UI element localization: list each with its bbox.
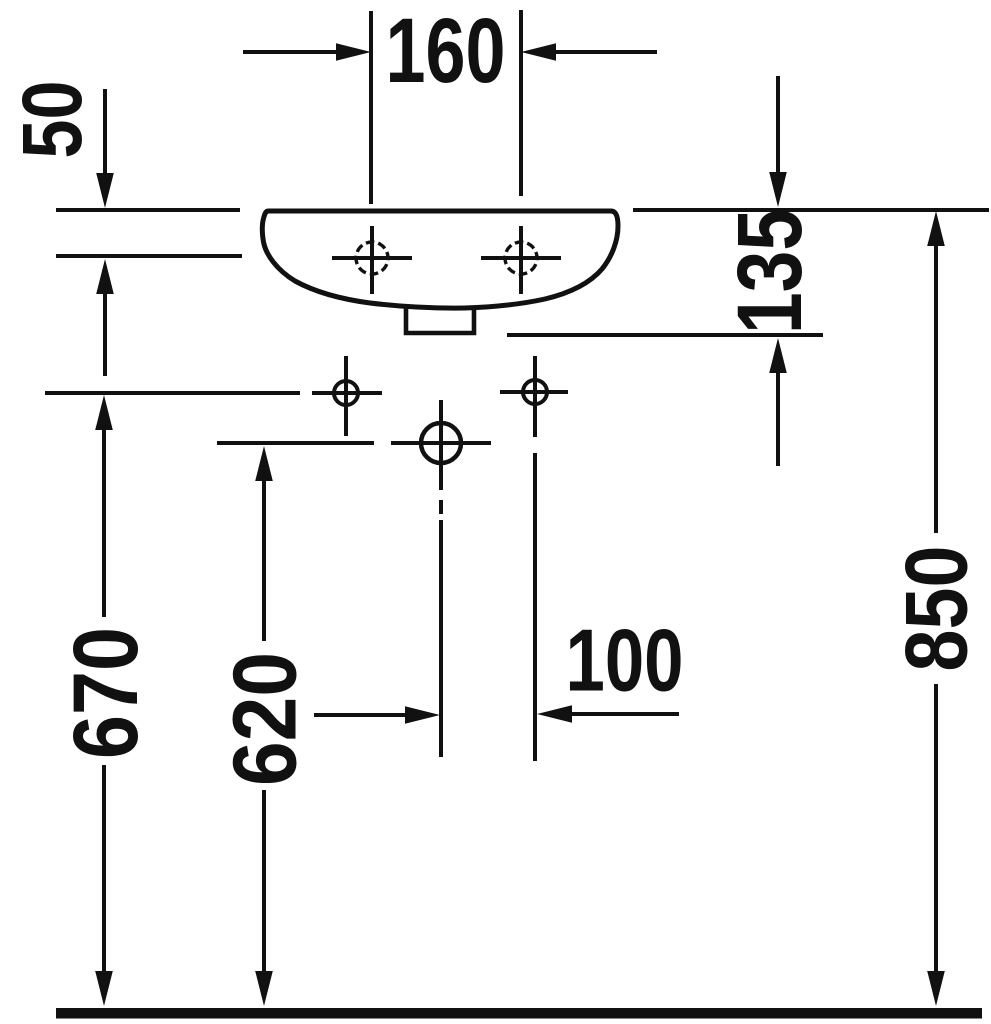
drain hole: circle: [421, 423, 461, 463]
svg-text:135: 135: [719, 209, 821, 334]
datum line right at basin top: [633, 208, 989, 212]
dim 670: lower tail to floor: [102, 765, 106, 974]
arrowhead 50 up (below line): [96, 259, 114, 294]
reference line y=335: [507, 333, 823, 337]
arrowhead 135 up (below line): [769, 338, 787, 373]
arrowhead 620 up: [255, 446, 273, 481]
dim 50: dimension line upper: [103, 89, 107, 176]
dim 670: reference line y=393: [45, 391, 300, 395]
dim 620: lower tail to floor: [262, 790, 266, 974]
dim 135: upper arrow line: [776, 76, 780, 174]
drain hole: center line dash: [439, 500, 443, 514]
arrowhead 135 down: [769, 172, 787, 207]
dim 100: left arrow line: [314, 713, 408, 717]
faucet hole right: horizontal arm: [481, 256, 561, 260]
fixing hole right: vertical arm: [533, 356, 537, 437]
arrowhead 50 down: [96, 173, 114, 208]
svg-text:50: 50: [5, 81, 99, 159]
dim 160: right arrow line: [552, 50, 657, 54]
drain hole: center line below: [439, 520, 443, 757]
dim 850: lower tail to floor: [934, 684, 938, 974]
dim 135: lower arrow tail: [776, 371, 780, 466]
arrowhead 100 left-pointing: [537, 705, 572, 723]
fixing hole left: circle: [334, 381, 358, 405]
arrowhead 850 down at floor: [927, 971, 945, 1006]
svg-text:100: 100: [566, 611, 684, 710]
svg-text:620: 620: [216, 652, 316, 786]
arrowhead 670 up: [95, 395, 113, 430]
drain hole: horizontal arm: [391, 441, 491, 445]
fixing hole left: vertical arm: [344, 356, 348, 436]
arrowhead 160 right (points left): [521, 43, 556, 61]
dim 160: left arrow line: [243, 50, 340, 54]
faucet hole left: horizontal arm: [332, 256, 412, 260]
drain hole: vertical arm through circle: [439, 400, 443, 490]
fixing hole right: horizontal arm: [500, 390, 568, 394]
svg-text:670: 670: [55, 627, 157, 759]
dim 100: right arrow line: [570, 712, 679, 716]
svg-text:850: 850: [887, 546, 986, 672]
faucet hole left: dashed circle: [356, 242, 388, 274]
dim 850: upper arrow tail: [934, 244, 938, 533]
basin outline: [262, 211, 618, 308]
faucet hole left: vertical arm: [370, 226, 374, 294]
datum line left at basin top: [56, 208, 240, 212]
arrowhead 670 down at floor: [95, 971, 113, 1006]
arrowhead 160 left (points right): [336, 43, 371, 61]
fixing hole left: horizontal arm: [312, 391, 382, 395]
arrowhead 620 down at floor: [255, 971, 273, 1006]
svg-text:160: 160: [386, 0, 506, 102]
dim 160: right extension line: [519, 10, 523, 196]
dim 620: reference line y=443: [217, 441, 374, 445]
floor line: [56, 1008, 982, 1019]
faucet hole right: vertical arm: [519, 226, 523, 294]
faucet hole right: dashed circle: [505, 242, 537, 274]
dim 50: tail below up-arrow: [103, 292, 107, 376]
fixing hole right: center line below: [533, 453, 537, 761]
fixing hole right: circle: [523, 380, 547, 404]
dim 620: upper arrow tail: [262, 479, 266, 641]
dim 160: left extension line: [369, 11, 373, 204]
arrowhead 850 up: [927, 211, 945, 246]
dim 670: upper arrow tail: [102, 428, 106, 617]
drain spigot box: [406, 306, 474, 333]
arrowhead 100 right-pointing: [405, 706, 440, 724]
reference line y=256: [56, 254, 242, 258]
